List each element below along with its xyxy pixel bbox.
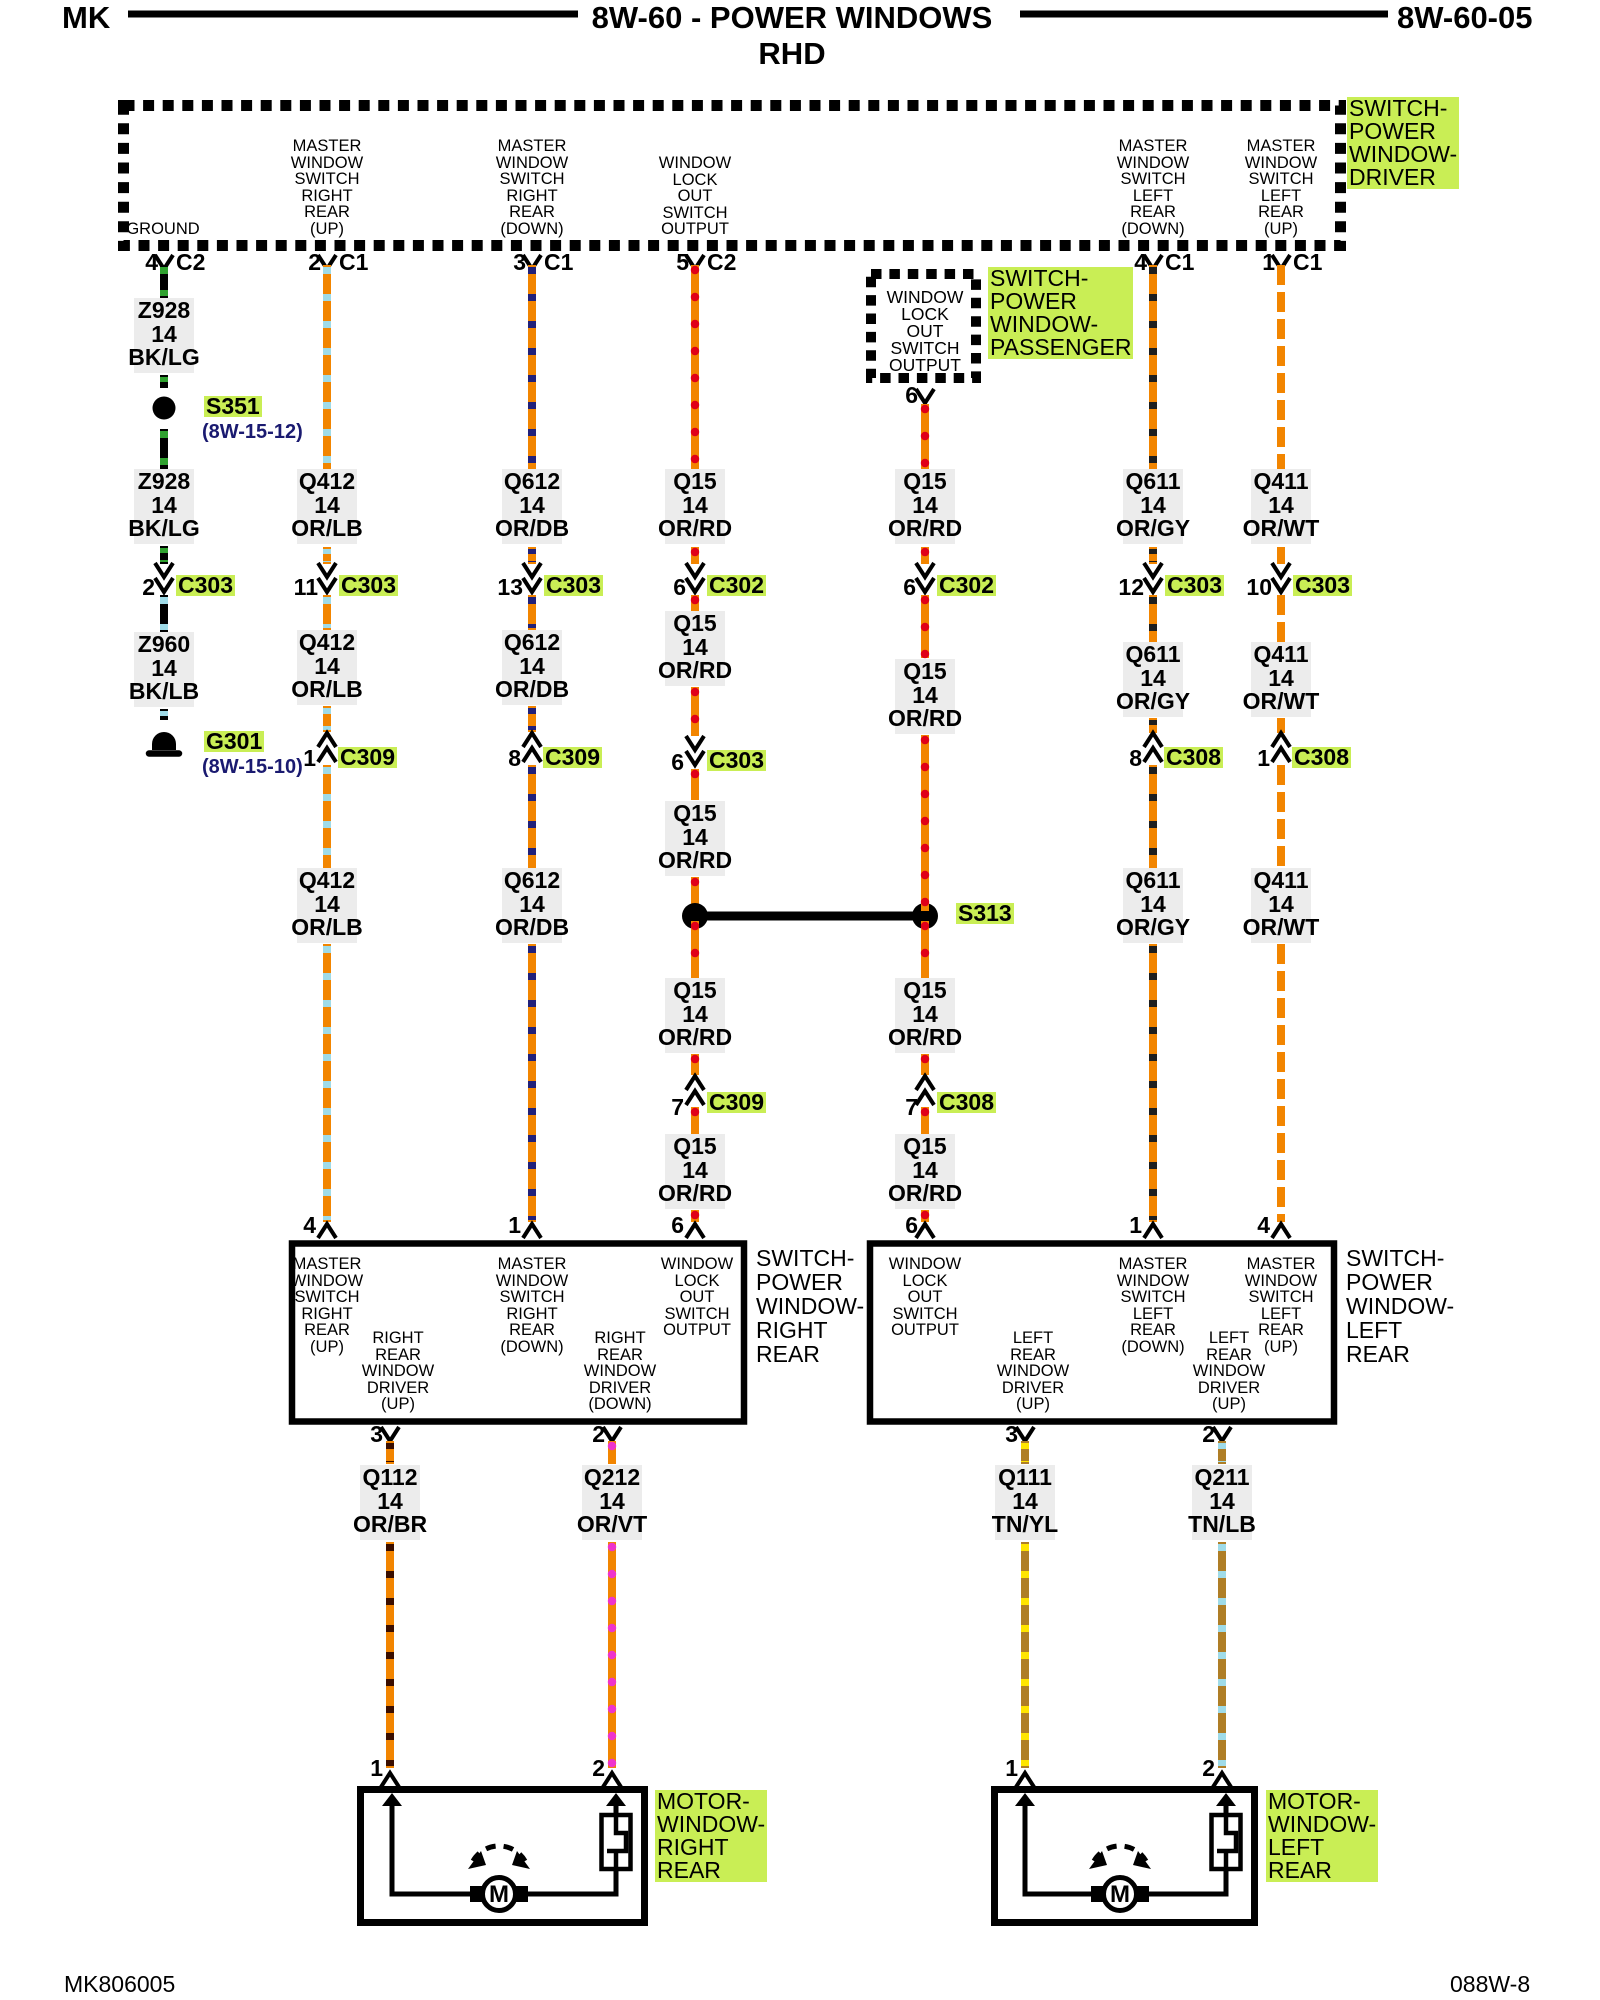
pin 2 out of switch right rear [592, 1424, 605, 1445]
pin 3 chevron below switch left rear [1016, 1427, 1034, 1441]
label Q611 14 OR/GY (row1) [1116, 470, 1190, 541]
label Q112 14 OR/BR [353, 1466, 427, 1537]
background for label Q112 14 OR/BR [360, 1465, 420, 1540]
pin label MASTER WINDOW SWITCH LEFT REAR (UP) [1245, 138, 1317, 237]
MOTOR-WINDOW-RIGHT REAR internal wiring [382, 1793, 626, 1894]
wire Q612 segment A (OR/DB) [528, 265, 536, 469]
label Q211 14 TN/LB [1188, 1466, 1256, 1537]
label Q15 14 OR/RD (row2 right) [888, 660, 962, 731]
label Q412 14 OR/LB (row1) [291, 470, 363, 541]
background for label Q612 14 OR/DB (row3) [502, 868, 562, 943]
label Q612 14 OR/DB (row2) [495, 631, 569, 702]
pin 4 chevron into switch right rear [318, 1224, 336, 1238]
label Z928 14 BK/LG (lower) [128, 470, 200, 541]
connector C1 chevron at x=1281 [1272, 255, 1290, 269]
wire Q15 passenger segment G (OR/RD) [921, 1107, 929, 1134]
label Q412 14 OR/LB (row2) [291, 631, 363, 702]
label Q15 14 OR/RD (row4 right) [888, 979, 962, 1050]
background for label Q611 14 OR/GY (row1) [1123, 469, 1183, 544]
connector name C303 at x=532 [544, 575, 603, 596]
background for label Q15 14 OR/RD (row4 left) [665, 978, 725, 1053]
wire Z928 segment 1 (BK/LG) [160, 265, 168, 298]
in-line connector C308 chevrons at x=1153 [1144, 733, 1162, 762]
box label WINDOW LOCK OUT SWITCH OUTPUT (left) [889, 1256, 961, 1339]
pin 1 of connector C1 [1262, 252, 1275, 273]
in-line connector C303 chevrons at x=1281 [1272, 563, 1290, 592]
dashed box SWITCH-POWER WINDOW-PASSENGER [871, 274, 976, 378]
in-line connector C303 chevrons at x=1153 [1144, 563, 1162, 592]
wire Z928 segment 3 (BK/LG) [160, 429, 168, 469]
wire Q15 segment E (OR/RD) [691, 769, 699, 800]
wire Q111 main (TN/YL) [1021, 1542, 1029, 1768]
wire Q15 passenger segment A (OR/RD) [921, 404, 929, 469]
MOTOR-WINDOW-LEFT REAR motor symbol M [1091, 1878, 1149, 1911]
wire Q412 segment B (OR/LB) [323, 547, 331, 564]
wire Q411 segment C (OR/WT) [1277, 595, 1285, 642]
splice S351 [153, 397, 176, 420]
background for label Q211 14 TN/LB [1192, 1465, 1252, 1540]
label Q611 14 OR/GY (row3) [1116, 869, 1190, 940]
wire Q112 stub (OR/BR) [386, 1441, 394, 1464]
label Q611 14 OR/GY (row2) [1116, 643, 1190, 714]
wire Z960 segment 1 (BK/LB) [160, 595, 168, 632]
pin 1 chevron into motor at x=1025 [1016, 1773, 1034, 1787]
pin 6 chevron below passenger lockout [916, 389, 934, 403]
title 8W-60-05 [1397, 0, 1533, 36]
wire Q611 segment E (OR/GY) [1149, 765, 1157, 868]
background for label Q15 14 OR/RD (row2 right) [895, 659, 955, 734]
pin label WINDOW LOCK OUT SWITCH OUTPUT [659, 155, 731, 238]
label Z928 14 BK/LG (upper) [128, 299, 200, 370]
wire Q15 passenger segment B (OR/RD) [921, 547, 929, 564]
background for label Q612 14 OR/DB (row2) [502, 630, 562, 705]
pin label GROUND [126, 221, 199, 238]
wire Q112 main (OR/BR) [386, 1542, 394, 1768]
label Q411 14 OR/WT (row2) [1243, 643, 1320, 714]
MOTOR-WINDOW-RIGHT REAR circuit breaker [602, 1815, 631, 1869]
wire Q411 segment D (OR/WT) [1277, 718, 1285, 733]
connector name C1 [1165, 252, 1194, 273]
pin label WINDOW LOCK OUT SWITCH OUTPUT (passenger) [887, 289, 964, 374]
connector C1 chevron at x=1153 [1144, 255, 1162, 269]
box label RIGHT REAR WINDOW DRIVER (UP) [362, 1330, 434, 1413]
box label MASTER WINDOW SWITCH RIGHT REAR (DOWN) [496, 1256, 568, 1355]
label Q15 14 OR/RD (row3 left) [658, 802, 732, 873]
in-line connector C302 chevrons at x=695 [686, 563, 704, 592]
connector name C308 at x=1281 [1292, 747, 1351, 768]
MOTOR-WINDOW-LEFT REAR rotation arrows [1089, 1846, 1151, 1869]
wire Q611 segment F (OR/GY) [1149, 944, 1157, 1222]
pin 6 into window lock out [671, 1215, 684, 1236]
pin label MASTER WINDOW SWITCH RIGHT REAR (DOWN) [496, 138, 568, 237]
title MK [62, 0, 110, 36]
green label SWITCH-POWER WINDOW-DRIVER [1347, 97, 1459, 189]
background for label Q15 14 OR/RD (row4 right) [895, 978, 955, 1053]
in-line connector C302 chevrons at x=925 [916, 563, 934, 592]
pin 6 of connector C302 [673, 577, 686, 598]
background for label Q15 14 OR/RD (row5 left) [665, 1134, 725, 1209]
label Q15 14 OR/RD (row5 right) [888, 1135, 962, 1206]
header rule left [128, 11, 578, 18]
wire Q212 stub (OR/VT) [608, 1441, 616, 1464]
in-line connector C308 chevrons at x=925 [916, 1076, 934, 1105]
pin 1 of connector C309 [303, 748, 316, 769]
background for label Q15 14 OR/RD (row2 left) [665, 611, 725, 686]
wire Q412 segment A (OR/LB) [323, 265, 331, 469]
background for label Q611 14 OR/GY (row3) [1123, 868, 1183, 943]
wire Q212 main (OR/VT) [608, 1542, 616, 1768]
MOTOR-WINDOW-RIGHT REAR motor symbol M [470, 1878, 528, 1911]
connector name C2 [707, 252, 736, 273]
connector name C1 [339, 252, 368, 273]
connector name C308 at x=1153 [1164, 747, 1223, 768]
pin 1 of connector C308 [1257, 748, 1270, 769]
splice name S351 [204, 396, 262, 417]
in-line connector C309 chevrons at x=695 [686, 1076, 704, 1105]
wire Q15 segment A (OR/RD) [691, 265, 699, 469]
box SWITCH-POWER WINDOW-RIGHT REAR [292, 1244, 744, 1422]
wire Q15 segment H (OR/RD) [691, 1054, 699, 1075]
pin 2 of connector C303 [142, 577, 155, 598]
splice name S313 [956, 903, 1014, 924]
pin 3 of connector C1 [513, 252, 526, 273]
connector name C1 [544, 252, 573, 273]
pin 4 into switch left rear [1257, 1215, 1270, 1236]
box label LEFT REAR WINDOW DRIVER (UP) 2 [1193, 1330, 1265, 1413]
header rule right [1020, 11, 1388, 18]
MOTOR-WINDOW-LEFT REAR internal wiring [1015, 1793, 1236, 1894]
MOTOR-WINDOW-RIGHT REAR rotation arrows [468, 1846, 530, 1869]
pin 2 into motor at x=1222 [1202, 1758, 1215, 1779]
background for label Q412 14 OR/LB (row2) [297, 630, 357, 705]
svg-text:M: M [1110, 1881, 1130, 1908]
pin 2 of connector C1 [308, 252, 321, 273]
pin label MASTER WINDOW SWITCH LEFT REAR (DOWN) [1117, 138, 1189, 237]
wire Q15 segment F (OR/RD) [691, 877, 699, 911]
wire Q15 segment G (OR/RD) [691, 921, 699, 978]
pin 3 out of switch right rear [370, 1424, 383, 1445]
wire Q411 segment F (OR/WT) [1277, 944, 1285, 1222]
box MOTOR-WINDOW-LEFT REAR [995, 1790, 1255, 1923]
wire Q411 segment E (OR/WT) [1277, 765, 1285, 868]
background for label Z960 14 BK/LB [134, 632, 194, 707]
wire Q412 segment D (OR/LB) [323, 706, 331, 732]
wire Q612 segment D (OR/DB) [528, 706, 536, 732]
pin 6 into window lock out left [905, 1215, 918, 1236]
ground G301 symbol [149, 732, 179, 754]
label Q15 14 OR/RD (row1) [658, 470, 732, 541]
label Q15 14 OR/RD (row1 right) [888, 470, 962, 541]
pin 8 of connector C309 [508, 748, 521, 769]
background for label Q15 14 OR/RD (row1) [665, 469, 725, 544]
wire Q612 segment C (OR/DB) [528, 595, 536, 630]
in-line connector C303 chevrons (ground branch) [155, 563, 173, 592]
pin 2 into motor at x=612 [592, 1758, 605, 1779]
connector name C2 [176, 252, 205, 273]
pin 2 chevron below switch left rear [1213, 1427, 1231, 1441]
annotation SWITCH-POWER WINDOW-RIGHT REAR [756, 1246, 864, 1366]
wire Q15 passenger segment C (OR/RD) [921, 595, 929, 658]
background for label Q15 14 OR/RD (row1 right) [895, 469, 955, 544]
box label MASTER WINDOW SWITCH LEFT REAR (DOWN) [1117, 1256, 1189, 1355]
wire Q412 segment F (OR/LB) [323, 944, 331, 1222]
in-line connector C309 chevrons at x=327 [318, 733, 336, 762]
background for label Q15 14 OR/RD (row5 right) [895, 1134, 955, 1209]
label Q411 14 OR/WT (row3) [1243, 869, 1320, 940]
box label WINDOW LOCK OUT SWITCH OUTPUT (right) [661, 1256, 733, 1339]
wire Q15 segment J (OR/RD) [691, 1210, 699, 1222]
wire Q611 segment B (OR/GY) [1149, 547, 1157, 564]
wire Q15 segment D (OR/RD) [691, 687, 699, 736]
pin 1 into motor at x=1025 [1005, 1758, 1018, 1779]
wire Q15 segment B (OR/RD) [691, 547, 699, 564]
background for label Q15 14 OR/RD (row3 left) [665, 801, 725, 876]
box MOTOR-WINDOW-RIGHT REAR [361, 1790, 645, 1923]
wire Z960 segment 2 (BK/LB) [160, 709, 168, 720]
connector name C303 at x=327 [339, 575, 398, 596]
background for label Q611 14 OR/GY (row2) [1123, 642, 1183, 717]
wire Q111 stub (TN/YL) [1021, 1441, 1029, 1464]
label Q15 14 OR/RD (row2 left) [658, 612, 732, 683]
connector C2 chevron at x=695 [686, 255, 704, 269]
background for label Q612 14 OR/DB (row1) [502, 469, 562, 544]
wire Q412 segment E (OR/LB) [323, 765, 331, 868]
wire Q411 segment A (OR/WT) [1277, 265, 1285, 469]
label Q411 14 OR/WT (row1) [1243, 470, 1320, 541]
wire Q15 passenger segment H (OR/RD) [921, 1210, 929, 1222]
wire Q211 main (TN/LB) [1218, 1542, 1226, 1768]
wire Q611 segment C (OR/GY) [1149, 595, 1157, 642]
wire Q412 segment C (OR/LB) [323, 595, 331, 630]
footer MK806005 [64, 1971, 175, 1998]
wire Q15 passenger segment E (OR/RD) [921, 921, 929, 978]
connector name C309 at x=532 [543, 747, 602, 768]
box label LEFT REAR WINDOW DRIVER (UP) 1 [997, 1330, 1069, 1413]
in-line connector C308 chevrons at x=1281 [1272, 733, 1290, 762]
label Q612 14 OR/DB (row1) [495, 470, 569, 541]
pin label MASTER WINDOW SWITCH RIGHT REAR (UP) [291, 138, 363, 237]
pin 2 chevron below switch right rear [603, 1427, 621, 1441]
wire Q612 segment E (OR/DB) [528, 765, 536, 868]
background for label Q412 14 OR/LB (row3) [297, 868, 357, 943]
connector name C303 at x=1281 [1293, 575, 1352, 596]
pin 1 into switch left rear [1129, 1215, 1142, 1236]
pin 1 into switch right rear [508, 1215, 521, 1236]
footer 088W-8 [1450, 1971, 1530, 1998]
pin 7 of connector C309 [671, 1097, 684, 1118]
connector C1 chevron at x=532 [523, 255, 541, 269]
pin 6 chevron into window lock out [686, 1224, 704, 1238]
background for label Z928 14 BK/LG (upper) [134, 298, 194, 373]
pin 7 of connector C308 [905, 1097, 918, 1118]
pin 4 into switch right rear [303, 1215, 316, 1236]
pin 5 of connector C2 [676, 252, 689, 273]
wire Q611 segment A (OR/GY) [1149, 265, 1157, 469]
pin 2 chevron into motor at x=1222 [1213, 1773, 1231, 1787]
dashed box SWITCH-POWER WINDOW-DRIVER [124, 106, 1341, 246]
pin 6 chevron into window lock out left [916, 1224, 934, 1238]
splice S313 bus [682, 903, 938, 929]
green label MOTOR-WINDOW-RIGHT REAR [655, 1790, 767, 1882]
box label RIGHT REAR WINDOW DRIVER (DOWN) [584, 1330, 656, 1413]
connector name C303 (ground branch) [176, 575, 235, 596]
reference (8W-15-10) [202, 756, 303, 779]
connector C1 chevron at x=327 [318, 255, 336, 269]
pin 2 chevron into motor at x=612 [603, 1773, 621, 1787]
svg-text:M: M [489, 1881, 509, 1908]
pin 6 of connector C302 right [903, 577, 916, 598]
title 8W-60 - POWER WINDOWS [592, 0, 993, 36]
pin 4 of connector C1 [1134, 252, 1147, 273]
in-line connector C303 chevrons at x=695 [686, 736, 704, 765]
wire Q15 passenger segment F (OR/RD) [921, 1054, 929, 1075]
in-line connector C303 chevrons at x=532 [523, 563, 541, 592]
label Q612 14 OR/DB (row3) [495, 869, 569, 940]
pin 12 of connector C303 [1118, 577, 1144, 598]
pin 13 of connector C303 [497, 577, 523, 598]
connector name C309 at x=327 [338, 747, 397, 768]
connector C2 chevron at x=164 [155, 255, 173, 269]
connector name C308 at x=925 [937, 1092, 996, 1113]
background for label Q411 14 OR/WT (row2) [1251, 642, 1311, 717]
pin 6 of passenger lockout [905, 385, 918, 406]
wire Q612 segment F (OR/DB) [528, 944, 536, 1222]
background for label Q212 14 OR/VT [582, 1465, 642, 1540]
wire Z928 segment 4 (BK/LG) [160, 546, 168, 564]
pin 1 chevron into motor at x=390 [381, 1773, 399, 1787]
pin 2 out of switch left rear [1202, 1424, 1215, 1445]
wire Q211 stub (TN/LB) [1218, 1441, 1226, 1464]
label Q412 14 OR/LB (row3) [291, 869, 363, 940]
label Q15 14 OR/RD (row4 left) [658, 979, 732, 1050]
label Q212 14 OR/VT [577, 1466, 647, 1537]
wire Q612 segment B (OR/DB) [528, 547, 536, 564]
pin 8 of connector C308 [1129, 748, 1142, 769]
pin 3 out of switch left rear [1005, 1424, 1018, 1445]
connector name C302 at x=695 [707, 575, 766, 596]
connector name C302 at x=925 [937, 575, 996, 596]
wire Q15 passenger segment D (OR/RD) [921, 735, 929, 911]
pin 3 chevron below switch right rear [381, 1427, 399, 1441]
background for label Z928 14 BK/LG (lower) [134, 469, 194, 544]
pin 1 into motor at x=390 [370, 1758, 383, 1779]
label Q111 14 TN/YL [992, 1466, 1058, 1537]
pin 10 of connector C303 [1246, 577, 1272, 598]
background for label Q111 14 TN/YL [995, 1465, 1055, 1540]
MOTOR-WINDOW-LEFT REAR circuit breaker [1212, 1815, 1241, 1869]
subtitle RHD [758, 36, 825, 72]
ground name G301 [204, 731, 264, 752]
label Z960 14 BK/LB [129, 633, 199, 704]
background for label Q411 14 OR/WT (row1) [1251, 469, 1311, 544]
wire Q15 segment C (OR/RD) [691, 595, 699, 611]
in-line connector C309 chevrons at x=532 [523, 733, 541, 762]
pin 1 chevron into switch right rear [523, 1224, 541, 1238]
wire Q411 segment B (OR/WT) [1277, 547, 1285, 564]
connector name C303 at x=1153 [1165, 575, 1224, 596]
box SWITCH-POWER WINDOW-LEFT REAR [870, 1244, 1334, 1422]
wire Q611 segment D (OR/GY) [1149, 718, 1157, 733]
pin 6 of connector C303 [671, 752, 684, 773]
wire Q15 segment I (OR/RD) [691, 1107, 699, 1134]
label Q15 14 OR/RD (row5 left) [658, 1135, 732, 1206]
box label MASTER WINDOW SWITCH LEFT REAR (UP) [1245, 1256, 1317, 1355]
pin 4 chevron into switch left rear [1272, 1224, 1290, 1238]
box label MASTER WINDOW SWITCH RIGHT REAR (UP) [291, 1256, 363, 1355]
reference (8W-15-12) [202, 421, 303, 444]
annotation SWITCH-POWER WINDOW-LEFT REAR [1346, 1246, 1454, 1366]
background for label Q412 14 OR/LB (row1) [297, 469, 357, 544]
wire Z928 segment 2 (BK/LG) [160, 375, 168, 388]
pin 4 of connector C2 [145, 252, 158, 273]
connector name C1 [1293, 252, 1322, 273]
pin 1 chevron into switch left rear [1144, 1224, 1162, 1238]
pin 11 of connector C303 [294, 577, 318, 598]
green label MOTOR-WINDOW-LEFT REAR [1266, 1790, 1378, 1882]
connector name C303 at x=695 [707, 750, 766, 771]
green label SWITCH-POWER WINDOW-PASSENGER [988, 267, 1133, 359]
background for label Q411 14 OR/WT (row3) [1251, 868, 1311, 943]
connector name C309 at x=695 [707, 1092, 766, 1113]
in-line connector C303 chevrons at x=327 [318, 563, 336, 592]
